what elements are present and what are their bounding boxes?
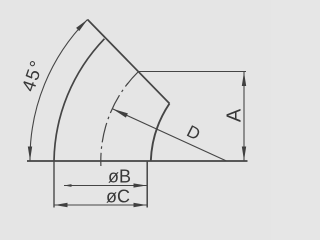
dimension line oB <box>64 185 147 187</box>
extension line left (oC) <box>53 161 55 208</box>
svg-text:øB: øB <box>108 167 131 187</box>
dimension line oC <box>55 204 147 206</box>
svg-text:A: A <box>224 108 246 122</box>
arrow oC left <box>55 203 68 207</box>
arrow A bottom <box>242 147 246 161</box>
arrow A top <box>242 72 246 86</box>
wire baseline (bottom face plane, extended both sides) <box>27 160 248 162</box>
dimension A vertical line <box>243 72 245 162</box>
leader line D <box>112 109 226 161</box>
dimension arc 45deg <box>30 20 88 161</box>
svg-text:øC: øC <box>106 187 130 207</box>
extension line right (oB/oC) <box>146 161 148 208</box>
arrow 45deg bottom <box>28 147 32 161</box>
arrow 45deg top <box>76 20 87 32</box>
arrow oB right <box>134 183 147 187</box>
arrow D <box>112 109 128 118</box>
dimension A horizontal extension <box>139 71 247 73</box>
elbow outer arc <box>54 39 104 161</box>
arrow oB left small <box>64 184 72 187</box>
centerline chain arc <box>101 72 139 167</box>
elbow inner arc <box>151 104 170 162</box>
elbow top face line <box>88 20 170 104</box>
arrow oC right <box>134 203 147 207</box>
